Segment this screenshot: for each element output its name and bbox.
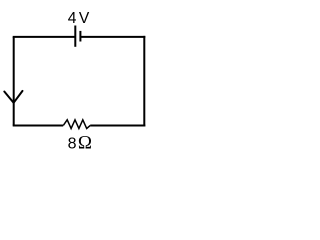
wire right segment: [143, 36, 145, 127]
svg-text:4: 4: [68, 10, 77, 27]
current direction arrow (downward): [4, 91, 22, 103]
battery cell (4 V source), long plate left: [75, 26, 80, 47]
svg-text:Ω: Ω: [78, 133, 92, 154]
resistor 8 ohm (zigzag): [63, 120, 90, 129]
wire bottom-right segment: [90, 125, 145, 127]
svg-text:V: V: [79, 10, 90, 27]
wire left segment: [13, 37, 15, 126]
label 4 V: [68, 10, 90, 27]
wire top-right segment: [80, 36, 145, 38]
svg-text:8: 8: [68, 136, 77, 153]
label 8 ohm: [68, 133, 92, 154]
wire bottom-left segment: [13, 125, 64, 127]
wire top-left segment: [13, 36, 76, 38]
